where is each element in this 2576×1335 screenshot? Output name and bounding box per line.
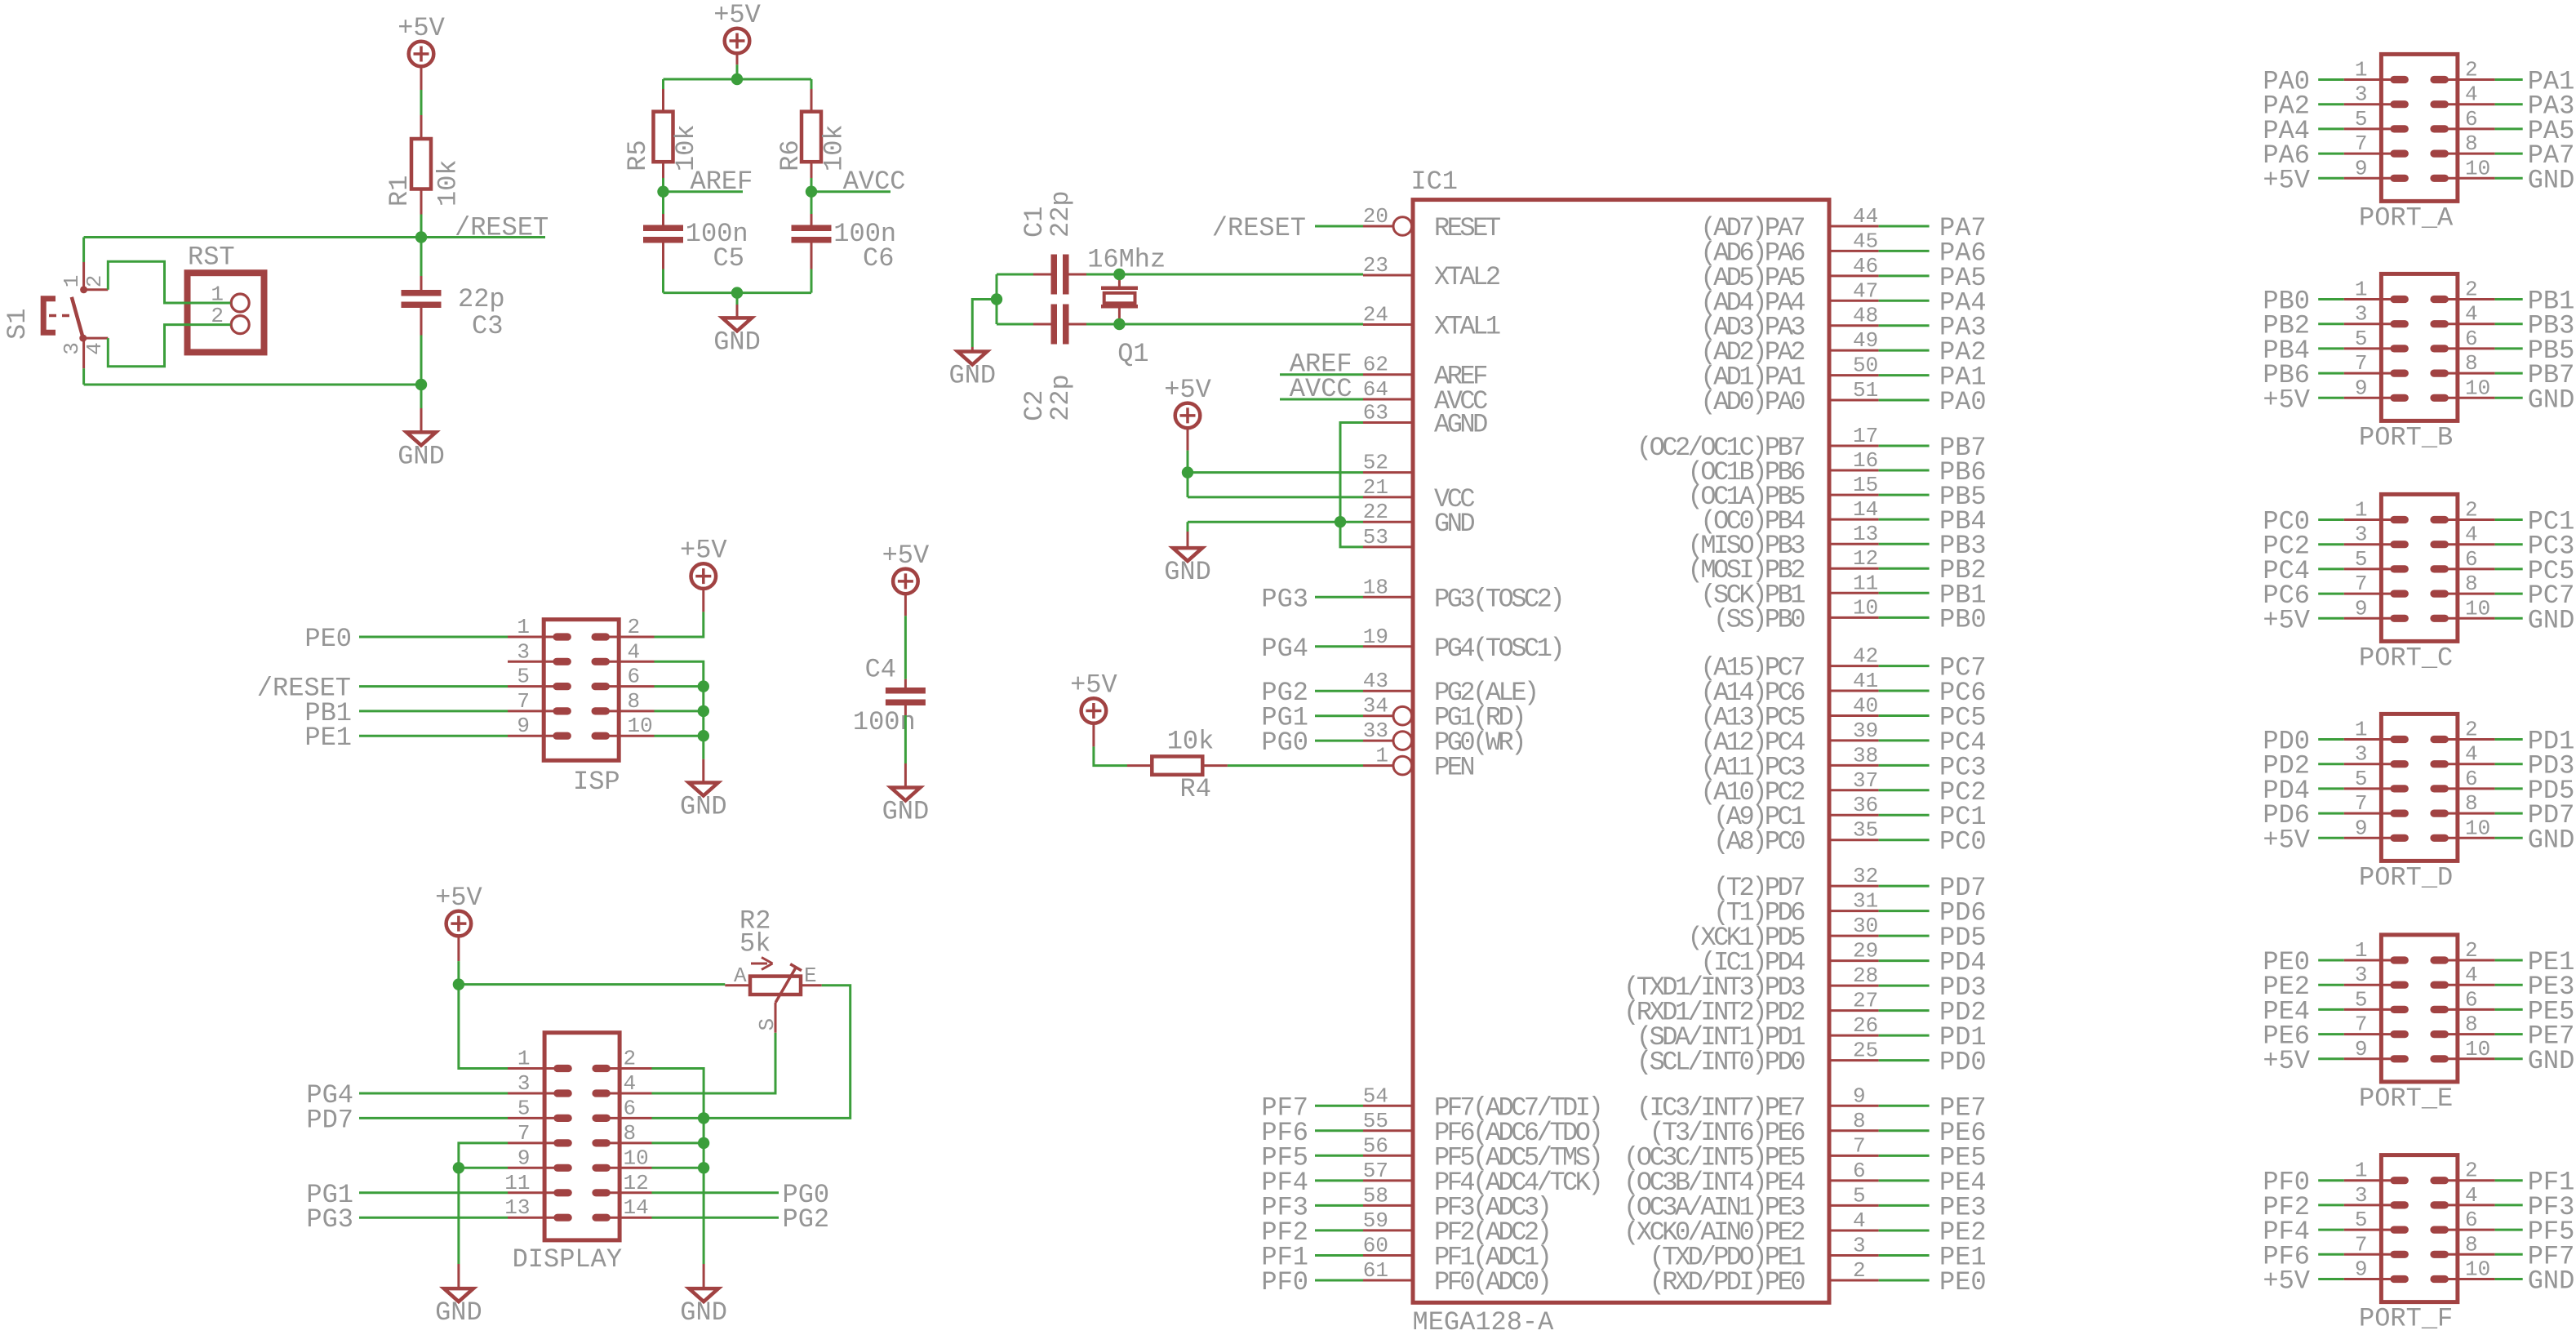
wire AGND rail [1340, 423, 1363, 547]
svg-text:GND: GND [2528, 1046, 2575, 1076]
wire DISPLAY pin8 stub [652, 1141, 704, 1144]
svg-text:5: 5 [2355, 327, 2368, 351]
svg-text:S: S [755, 1018, 779, 1031]
pin 6 of DISPLAY [592, 1096, 651, 1122]
svg-text:2: 2 [1853, 1258, 1866, 1283]
junction ISP pin8 [698, 705, 709, 717]
svg-text:30: 30 [1853, 914, 1878, 938]
svg-text:+5V: +5V [435, 883, 482, 913]
svg-text:57: 57 [1363, 1159, 1388, 1183]
wire ISP GND rail [655, 661, 704, 759]
svg-text:S1: S1 [2, 309, 33, 340]
pin 9 of PORT_A [2344, 156, 2409, 182]
pin 2 of PORT_B [2430, 278, 2494, 304]
svg-text:PC0: PC0 [1939, 827, 1987, 857]
net PC4 label wire [1879, 739, 1930, 741]
svg-text:10: 10 [628, 714, 653, 738]
power +5V supply (DISPLAY) [435, 883, 482, 936]
svg-text:+5V: +5V [1164, 375, 1211, 405]
svg-text:PD0: PD0 [1939, 1048, 1987, 1078]
svg-text:1: 1 [517, 615, 530, 639]
svg-text:9: 9 [2355, 596, 2368, 621]
svg-text:RST: RST [188, 243, 235, 273]
wire GND branch vertical [996, 274, 998, 324]
pin 10 of DISPLAY [592, 1146, 651, 1172]
svg-text:XTAL2: XTAL2 [1434, 262, 1499, 292]
wire S1 pin4 to RST pin2 [108, 325, 230, 367]
pin 13 of DISPLAY [504, 1195, 572, 1222]
net PB3 label at PORT_B pin 4 [2495, 323, 2523, 325]
svg-text:7: 7 [2355, 572, 2368, 596]
svg-text:1: 1 [2355, 718, 2368, 742]
net GND label at PORT_A pin 10 [2495, 177, 2523, 180]
wire +5V to rail [736, 53, 739, 65]
net AREF label at pin 62 [1280, 373, 1363, 376]
net PD6 label wire [1879, 910, 1930, 912]
svg-text:7: 7 [2355, 1012, 2368, 1037]
svg-text:39: 39 [1853, 719, 1878, 743]
svg-text:5: 5 [2355, 107, 2368, 131]
pin 9 of PORT_F [2344, 1257, 2409, 1284]
pin 9 of PORT_B [2344, 376, 2409, 402]
svg-text:7: 7 [517, 1121, 531, 1146]
net PE0 label wire [1879, 1279, 1930, 1282]
resistor R5 [623, 112, 701, 171]
svg-text:GND: GND [948, 361, 996, 391]
svg-text:5: 5 [2355, 547, 2368, 572]
net PE4 label wire [1879, 1179, 1930, 1181]
svg-text:3: 3 [1853, 1234, 1866, 1258]
connector PORT_A body [2381, 54, 2458, 201]
svg-text:PORT_D: PORT_D [2359, 862, 2453, 892]
svg-text:6: 6 [2465, 767, 2478, 791]
junction +5V rail [731, 73, 743, 85]
pin 6 of PORT_B [2430, 327, 2494, 353]
IC IC1 MEGA128-A body [1410, 167, 1829, 1335]
svg-text:56: 56 [1363, 1133, 1388, 1158]
svg-text:C3: C3 [472, 311, 503, 341]
junction ISP pin10 [698, 730, 709, 741]
pin 3 of PORT_D [2344, 742, 2409, 768]
svg-text:3: 3 [517, 639, 530, 664]
net GND label at PORT_E pin 10 [2495, 1057, 2523, 1060]
svg-text:46: 46 [1853, 254, 1878, 278]
pin 16 PB6 of IC1 [1688, 448, 1879, 487]
net PB7 label wire [1879, 445, 1930, 447]
connector PORT_D body [2381, 714, 2458, 861]
svg-text:3: 3 [60, 342, 84, 355]
wire C4 to ground [904, 705, 907, 716]
pin 7 of DISPLAY [508, 1121, 572, 1147]
capacitor C2 [1019, 305, 1076, 421]
net PF1 label at PORT_F pin 2 [2495, 1179, 2523, 1181]
pin 23 XTAL2 of IC1 [1363, 253, 1499, 292]
switch S1 [2, 275, 108, 355]
net GND label at PORT_C pin 10 [2495, 617, 2523, 620]
svg-text:PORT_F: PORT_F [2359, 1304, 2453, 1334]
svg-text:61: 61 [1363, 1258, 1388, 1283]
svg-text:R6: R6 [775, 140, 806, 171]
svg-text:15: 15 [1853, 473, 1878, 497]
pin 1 of PORT_E [2344, 938, 2409, 964]
net PE3 label wire [1879, 1204, 1930, 1207]
pin 63 AGND of IC1 [1363, 401, 1487, 440]
svg-text:GND: GND [2528, 605, 2575, 635]
net PE5 label wire [1879, 1155, 1930, 1157]
svg-text:4: 4 [628, 639, 641, 664]
pin 32 PD7 of IC1 [1713, 864, 1879, 903]
svg-text:4: 4 [2465, 963, 2478, 987]
svg-text:10k: 10k [433, 159, 464, 207]
pin 2 of PORT_A [2430, 58, 2494, 84]
svg-text:9: 9 [517, 1146, 531, 1170]
svg-text:6: 6 [2465, 327, 2478, 351]
junction C3 GND [415, 379, 427, 390]
svg-text:9: 9 [2355, 376, 2368, 400]
ground GND (C5/C6) [713, 318, 761, 357]
svg-text:AGND: AGND [1434, 410, 1487, 440]
pin 21 VCC of IC1 [1363, 475, 1475, 514]
svg-text:60: 60 [1363, 1234, 1388, 1258]
pin 10 of PORT_D [2430, 816, 2494, 842]
svg-text:7: 7 [1853, 1133, 1866, 1158]
svg-text:PF0(ADC0): PF0(ADC0) [1434, 1267, 1549, 1297]
svg-text:54: 54 [1363, 1084, 1388, 1108]
pin 50 PA1 of IC1 [1700, 354, 1878, 393]
pin 15 PB5 of IC1 [1688, 473, 1879, 512]
svg-text:9: 9 [2355, 816, 2368, 840]
net PC7 label wire [1879, 665, 1930, 667]
pin 2 PE0 of IC1 [1650, 1258, 1879, 1297]
svg-text:63: 63 [1363, 401, 1388, 425]
wire C2 left to GND branch [1033, 323, 1051, 326]
svg-text:21: 21 [1363, 475, 1388, 500]
net PG1 label at pin 34 [1315, 714, 1363, 717]
net PF5 label at PORT_F pin 6 [2495, 1229, 2523, 1231]
pin 34 PG1(RD) of IC1 [1363, 694, 1524, 733]
svg-text:1: 1 [60, 275, 84, 288]
wire ISP pin10 stub [655, 735, 704, 737]
svg-text:43: 43 [1363, 669, 1388, 693]
svg-text:1: 1 [2355, 938, 2368, 963]
pin 5 of PORT_B [2344, 327, 2409, 353]
net AVCC label at pin 64 [1280, 398, 1363, 401]
wire R2 E to DISPLAY pin6 rail [704, 986, 851, 1119]
pin 8 of PORT_D [2430, 791, 2494, 817]
svg-text:58: 58 [1363, 1183, 1388, 1208]
svg-text:PA0: PA0 [1939, 387, 1987, 417]
wire R4 to PEN [1202, 764, 1228, 767]
wire C3 to GND net [420, 308, 423, 336]
svg-text:51: 51 [1853, 378, 1878, 403]
net PB0 label wire [1879, 616, 1930, 619]
svg-text:4: 4 [2465, 742, 2478, 767]
net PD7 label wire [1879, 885, 1930, 888]
net PA0 label wire [1879, 399, 1930, 402]
pin 5 of PORT_A [2344, 107, 2409, 133]
wire /RESET horizontal [84, 236, 545, 238]
wire AVCC to C6 [811, 192, 813, 214]
pin 11 of DISPLAY [504, 1171, 572, 1197]
pin 4 of PORT_A [2430, 82, 2494, 109]
pin 10 of PORT_F [2430, 1257, 2494, 1284]
wire S1 pin2 to RST pin1 [108, 261, 230, 303]
svg-text:GND: GND [2528, 165, 2575, 195]
svg-text:C6: C6 [863, 243, 894, 274]
svg-text:PG3: PG3 [306, 1204, 353, 1235]
wire pin22 GND [1188, 521, 1363, 523]
net PB3 label wire [1879, 543, 1930, 545]
svg-text:+5V: +5V [713, 0, 761, 30]
junction Q1 bottom [1113, 318, 1125, 330]
svg-text:(SCL/INT0)PD0: (SCL/INT0)PD0 [1637, 1048, 1805, 1078]
svg-text:C4: C4 [865, 655, 896, 685]
net PE5 label at PORT_E pin 6 [2495, 1008, 2523, 1011]
pin 1 of PORT_D [2344, 718, 2409, 744]
svg-text:(AD0)PA0: (AD0)PA0 [1700, 387, 1805, 417]
net PE7 label at PORT_E pin 8 [2495, 1033, 2523, 1035]
svg-text:+5V: +5V [680, 536, 727, 566]
pin 4 PE2 of IC1 [1623, 1208, 1878, 1248]
pin 3 of PORT_F [2344, 1183, 2409, 1209]
svg-text:(A8)PC0: (A8)PC0 [1713, 827, 1805, 857]
pin 44 PA7 of IC1 [1700, 204, 1878, 243]
svg-text:GND: GND [435, 1297, 482, 1328]
svg-text:22p: 22p [458, 284, 505, 314]
svg-text:11: 11 [1853, 571, 1878, 595]
svg-text:+5V: +5V [882, 541, 930, 571]
svg-text:+5V: +5V [398, 13, 445, 43]
net PA4 label wire [1879, 300, 1930, 302]
wire C1 right stub [1068, 274, 1086, 276]
svg-text:9: 9 [2355, 1257, 2368, 1282]
svg-text:10k: 10k [1167, 727, 1215, 757]
connector PORT_C body [2381, 494, 2458, 641]
pin 25 PD0 of IC1 [1637, 1039, 1879, 1078]
svg-text:20: 20 [1363, 204, 1388, 229]
net PE2 label wire [1879, 1230, 1930, 1232]
svg-text:8: 8 [2465, 351, 2478, 376]
svg-text:52: 52 [1363, 451, 1388, 475]
pin 26 PD1 of IC1 [1637, 1013, 1879, 1052]
wire R5 to AREF node [662, 162, 664, 178]
svg-text:2: 2 [82, 275, 107, 288]
svg-text:7: 7 [2355, 1232, 2368, 1257]
svg-text:10: 10 [2465, 1037, 2490, 1061]
pin 4 of PORT_D [2430, 742, 2494, 768]
pin 9 of DISPLAY [508, 1146, 572, 1172]
svg-text:37: 37 [1853, 768, 1878, 793]
junction DISPLAY pin10 [698, 1162, 709, 1173]
net PA6 label wire [1879, 250, 1930, 252]
svg-text:19: 19 [1363, 625, 1388, 649]
pin 9 of PORT_D [2344, 816, 2409, 842]
svg-text:3: 3 [2355, 82, 2368, 107]
net PA5 label at PORT_A pin 6 [2495, 127, 2523, 130]
svg-text:5k: 5k [739, 929, 771, 959]
svg-text:R1: R1 [384, 176, 415, 207]
svg-text:PG3: PG3 [1261, 584, 1308, 614]
svg-text:4: 4 [2465, 523, 2478, 547]
svg-text:62: 62 [1363, 353, 1388, 377]
wire +5V to C4 [904, 593, 907, 616]
pin 8 of PORT_A [2430, 131, 2494, 158]
pin 33 PG0(WR) of IC1 [1363, 719, 1524, 758]
svg-text:R5: R5 [623, 140, 653, 171]
svg-text:3: 3 [2355, 742, 2368, 767]
svg-text:PORT_E: PORT_E [2359, 1084, 2453, 1114]
net PD5 label at PORT_D pin 6 [2495, 787, 2523, 790]
pin 3 of PORT_B [2344, 302, 2409, 328]
pin 54 PF7(ADC7/TDI) of IC1 [1363, 1084, 1601, 1123]
resistor R4 [1152, 727, 1214, 805]
svg-text:6: 6 [2465, 107, 2478, 131]
svg-text:27: 27 [1853, 989, 1878, 1013]
pin 7 PE5 of IC1 [1623, 1133, 1878, 1173]
pin 8 of PORT_E [2430, 1012, 2494, 1039]
svg-text:22p: 22p [1046, 190, 1076, 238]
pin 58 PF3(ADC3) of IC1 [1363, 1183, 1550, 1222]
svg-text:7: 7 [2355, 131, 2368, 156]
svg-text:C5: C5 [713, 243, 744, 274]
svg-text:GND: GND [680, 792, 727, 822]
pin 10 of PORT_A [2430, 156, 2494, 182]
svg-text:16Mhz: 16Mhz [1087, 245, 1166, 275]
svg-text:8: 8 [2465, 791, 2478, 816]
wire GND to ground symbol [1187, 522, 1189, 532]
svg-text:55: 55 [1363, 1109, 1388, 1133]
pin 59 PF2(ADC2) of IC1 [1363, 1208, 1550, 1248]
svg-text:1: 1 [2355, 58, 2368, 82]
svg-text:7: 7 [517, 689, 530, 714]
svg-text:/RESET: /RESET [1212, 213, 1306, 243]
wire rail to ground (ISP) [702, 759, 704, 783]
wire C1 left to GND branch [1033, 274, 1051, 276]
pin 1 of PORT_B [2344, 278, 2409, 304]
net PB2 label wire [1879, 567, 1930, 570]
wire DISPLAY pin2 to GND rail right [652, 1069, 704, 1168]
wire DISPLAY pin4 to R2 S [652, 1033, 776, 1093]
pin 1 of PORT_A [2344, 58, 2409, 84]
net PC1 label wire [1879, 814, 1930, 817]
pin 6 of PORT_A [2430, 107, 2494, 133]
svg-text:16: 16 [1853, 448, 1878, 473]
net PA2 label wire [1879, 349, 1930, 352]
net PE7 label wire [1879, 1105, 1930, 1107]
pin 10 of PORT_B [2430, 376, 2494, 402]
pin 5 of PORT_C [2344, 547, 2409, 573]
pin 9 of PORT_C [2344, 596, 2409, 622]
wire XTAL1 net y397 [1086, 323, 1363, 326]
pin 4 of PORT_B [2430, 302, 2494, 328]
svg-text:26: 26 [1853, 1013, 1878, 1038]
connector PORT_E body [2381, 935, 2458, 1082]
wire AREF to C5 [662, 192, 664, 214]
pin 5 of ISP [508, 665, 571, 691]
pin 28 PD3 of IC1 [1623, 963, 1878, 1003]
svg-text:1: 1 [1375, 744, 1388, 768]
svg-text:22p: 22p [1046, 374, 1076, 421]
svg-text:RESET: RESET [1434, 213, 1500, 243]
net GND label at PORT_F pin 10 [2495, 1278, 2523, 1280]
ground GND (C3) [398, 432, 445, 471]
net PG4 label at pin 19 [1315, 645, 1363, 647]
pin 42 PC7 of IC1 [1700, 644, 1878, 683]
net PC6 label wire [1879, 690, 1930, 692]
junction ISP pin6 [698, 680, 709, 692]
capacitor C6 [792, 219, 897, 274]
svg-text:1: 1 [517, 1047, 531, 1071]
pin 14 PB4 of IC1 [1700, 497, 1878, 536]
net PA7 label wire [1879, 225, 1930, 228]
net PF4 label at pin 57 [1315, 1179, 1363, 1181]
svg-text:1: 1 [2355, 1159, 2368, 1183]
connector PORT_B body [2381, 274, 2458, 421]
svg-text:2: 2 [2465, 498, 2478, 523]
power +5V supply (ISP) [680, 536, 727, 589]
wire XTAL2 net y336 [1086, 274, 1363, 276]
pin 6 of PORT_F [2430, 1208, 2494, 1234]
svg-text:25: 25 [1853, 1039, 1878, 1063]
svg-text:48: 48 [1853, 304, 1878, 328]
net PG0 label at pin 33 [1315, 740, 1363, 742]
net PA5 label wire [1879, 274, 1930, 277]
pin 8 of DISPLAY [592, 1121, 651, 1147]
net PD7 label at PORT_D pin 8 [2495, 812, 2523, 815]
svg-text:1: 1 [2355, 278, 2368, 302]
svg-text:PG4: PG4 [1261, 634, 1308, 664]
wire +5V to R1 [420, 66, 423, 91]
junction DISPLAY pin9 [453, 1162, 464, 1173]
pin 36 PC1 of IC1 [1713, 793, 1879, 832]
pin 57 PF4(ADC4/TCK) of IC1 [1363, 1159, 1601, 1198]
svg-text:GND: GND [2528, 825, 2575, 855]
wire to crystal ground [972, 300, 997, 348]
net PC5 label at PORT_C pin 6 [2495, 567, 2523, 570]
pin 7 of PORT_C [2344, 572, 2409, 598]
ground GND (crystal) [948, 352, 996, 391]
power +5V supply (R5/R6) [713, 0, 761, 53]
pin 8 of PORT_B [2430, 351, 2494, 377]
pin 2 of PORT_D [2430, 718, 2494, 744]
svg-text:35: 35 [1853, 818, 1878, 843]
junction +5V DISPLAY [453, 978, 464, 990]
svg-text:5: 5 [517, 1096, 531, 1120]
net PD2 label wire [1879, 1009, 1930, 1012]
svg-text:17: 17 [1853, 424, 1878, 448]
wire R1 to /RESET net [420, 189, 423, 215]
svg-text:GND: GND [1434, 509, 1474, 539]
pin 10 PB0 of IC1 [1713, 595, 1879, 634]
svg-text:PORT_B: PORT_B [2359, 422, 2453, 452]
svg-text:PEN: PEN [1434, 753, 1473, 783]
wire rail down to ground (DISPLAY left) [457, 1168, 460, 1264]
pin 1 of PORT_F [2344, 1159, 2409, 1185]
svg-text:42: 42 [1853, 644, 1878, 669]
svg-text:+5V: +5V [2263, 385, 2310, 415]
pin 24 XTAL1 of IC1 [1363, 303, 1500, 342]
pin 17 PB7 of IC1 [1637, 424, 1879, 463]
net PD4 label wire [1879, 959, 1930, 962]
svg-text:4: 4 [1853, 1208, 1866, 1233]
net PA7 label at PORT_A pin 8 [2495, 153, 2523, 155]
svg-text:IC1: IC1 [1410, 167, 1458, 197]
pin 46 PA5 of IC1 [1700, 254, 1878, 293]
pin 3 of DISPLAY [508, 1071, 572, 1097]
pin 6 of PORT_C [2430, 547, 2494, 573]
svg-text:PE0: PE0 [1939, 1267, 1987, 1297]
wire DISPLAY pin7 to GND rail [459, 1143, 508, 1168]
